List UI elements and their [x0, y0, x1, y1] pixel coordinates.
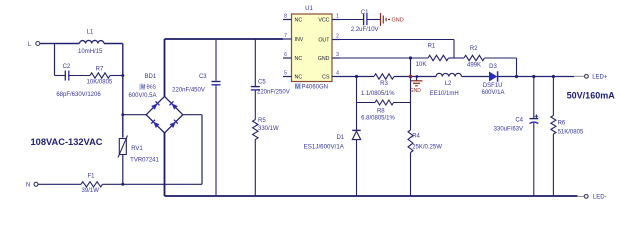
wire L terminal to filter node — [40, 43, 55, 45]
inductor L1 — [80, 40, 105, 43]
svg-text:C4: C4 — [515, 118, 523, 124]
svg-text:4: 4 — [336, 71, 339, 77]
svg-text:6: 6 — [284, 52, 287, 58]
svg-text:7: 7 — [284, 33, 287, 39]
svg-text:1: 1 — [336, 14, 339, 20]
svg-text:F1: F1 — [87, 174, 95, 180]
svg-text:39/1W: 39/1W — [82, 188, 100, 194]
svg-text:NC: NC — [295, 56, 303, 62]
wire N to F1 — [38, 183, 81, 185]
svg-text:R8: R8 — [377, 109, 385, 115]
wire C5 to R5 — [254, 91, 256, 120]
varistor RV1 — [119, 139, 126, 155]
wire C1 to gnd — [367, 19, 380, 21]
capacitor C3 lead bottom — [215, 86, 217, 197]
bridge BD1 diamond — [146, 96, 183, 133]
pin 4 stub — [332, 76, 340, 78]
capacitor C5 plate1 — [251, 86, 260, 88]
svg-text:10K/0805: 10K/0805 — [87, 79, 113, 85]
junction C4 — [532, 75, 535, 78]
resistor R5 — [253, 120, 258, 140]
svg-text:10mH/15: 10mH/15 — [78, 49, 103, 55]
svg-text:M B6S: M B6S — [141, 85, 157, 91]
svg-text:LED+: LED+ — [592, 75, 608, 81]
diode D1 — [352, 129, 360, 131]
terminal L — [36, 42, 40, 46]
capacitor C5 plate2 — [251, 89, 260, 91]
svg-text:5: 5 — [284, 71, 287, 77]
wire pin2 jumper — [340, 39, 454, 41]
op-amp U1 MP4060GN body — [292, 14, 333, 82]
junction R2 drop — [515, 75, 518, 78]
svg-text:ES1J/600V/1A: ES1J/600V/1A — [304, 144, 345, 151]
wire C4 bottom — [533, 123, 535, 196]
value BD1 — [139, 84, 145, 90]
vertical wire up to bridge right — [201, 115, 203, 185]
svg-text:8: 8 — [284, 14, 287, 20]
svg-text:CS: CS — [322, 75, 330, 81]
svg-text:C2: C2 — [63, 64, 71, 70]
svg-text:D3: D3 — [489, 64, 497, 70]
svg-text:R1: R1 — [428, 44, 436, 50]
svg-text:68pF/630V/1206: 68pF/630V/1206 — [56, 92, 101, 98]
pin 6 stub — [283, 57, 292, 59]
diode D3 — [489, 72, 497, 82]
svg-text:GND: GND — [410, 88, 422, 94]
wire pin4 CS row — [340, 76, 374, 78]
junction gnd stub — [416, 75, 419, 78]
capacitor C2 plate1 — [64, 71, 66, 81]
svg-text:INV: INV — [295, 37, 304, 43]
svg-text:D1: D1 — [336, 135, 344, 141]
svg-text:VCC: VCC — [318, 18, 329, 24]
DC+ rail — [165, 38, 284, 40]
wire pin1 to C1 — [340, 19, 363, 21]
pin 7 stub — [283, 38, 292, 40]
wire bridge top to DC+ rail — [164, 39, 166, 96]
svg-text:GND: GND — [318, 56, 330, 62]
wire R5 to rail — [254, 140, 256, 197]
wire R8 left — [357, 102, 376, 104]
wire bridge bottom to DC- rail — [164, 133, 166, 196]
vertical wire filter node down — [122, 44, 124, 138]
wire R2 drop to LED+ row — [516, 58, 518, 77]
capacitor C3 plate2 — [212, 84, 221, 86]
wire R1 to R2 — [449, 57, 465, 59]
wire gnd node drop — [410, 58, 412, 77]
wire bridge left corner — [123, 114, 146, 116]
pin 5 stub — [283, 76, 292, 78]
resistor R3 — [374, 74, 394, 79]
svg-text:600V/0.5A: 600V/0.5A — [128, 93, 156, 99]
svg-text:EE10/1mH: EE10/1mH — [430, 91, 459, 97]
wire to bridge right corner — [183, 114, 202, 116]
bridge diode bottom-left — [151, 120, 159, 128]
capacitor C2 plate2 — [68, 71, 70, 81]
pin 8 stub — [283, 19, 292, 21]
svg-text:51K/0805: 51K/0805 — [558, 129, 584, 135]
svg-text:RV1: RV1 — [131, 146, 143, 152]
junction CS/D1 — [355, 75, 358, 78]
wire N line to bridge AC2 — [103, 183, 203, 185]
svg-text:BD1: BD1 — [144, 74, 156, 80]
capacitor C4 plate- — [530, 122, 539, 123]
wire D3 to LED+ — [498, 76, 574, 78]
capacitor C1 plate1 — [363, 14, 365, 25]
junction filter node — [121, 74, 124, 77]
svg-text:220nF/250V: 220nF/250V — [257, 90, 290, 96]
svg-text:1.1/0805/1%: 1.1/0805/1% — [361, 91, 395, 97]
svg-text:3: 3 — [336, 52, 339, 58]
svg-text:2: 2 — [336, 34, 339, 40]
gray stub LED+ — [574, 75, 584, 77]
svg-text:R2: R2 — [470, 46, 478, 52]
svg-text:R7: R7 — [96, 66, 104, 72]
terminal N — [34, 182, 38, 186]
svg-text:LED-: LED- — [593, 195, 607, 201]
bridge diode top-left — [151, 101, 159, 109]
svg-text:2.2uF/10V: 2.2uF/10V — [351, 27, 379, 33]
terminal LED+ — [585, 74, 589, 78]
wire C4 top — [533, 77, 535, 119]
capacitor C4 plate+ — [530, 118, 539, 120]
resistor R2 — [464, 55, 485, 60]
wire D1 to rail — [356, 140, 358, 196]
part highlight — [295, 83, 301, 89]
svg-text:N: N — [26, 183, 30, 189]
junction CS/gnd red — [409, 75, 413, 79]
wire R7 to node — [110, 75, 123, 77]
svg-text:C5: C5 — [258, 80, 266, 86]
svg-text:TVR07241: TVR07241 — [130, 157, 159, 163]
svg-text:NC: NC — [295, 75, 303, 81]
svg-text:U1: U1 — [305, 6, 313, 12]
svg-text:330/1W: 330/1W — [258, 126, 279, 132]
svg-text:499K: 499K — [467, 63, 481, 69]
wire L2 to D3 — [462, 76, 490, 78]
ground VCC — [381, 13, 391, 26]
resistor R1 — [428, 55, 449, 60]
ground mid — [411, 77, 423, 86]
wire R2 right — [485, 57, 517, 59]
resistor R4 — [408, 130, 413, 153]
wire R4 to rail — [410, 153, 412, 197]
junction gnd row — [409, 56, 412, 59]
pin 3 stub — [332, 57, 340, 59]
bridge diode top-right — [169, 101, 177, 109]
svg-text:600V/1A: 600V/1A — [481, 90, 504, 96]
pin 1 stub — [332, 19, 340, 21]
inductor L2 — [436, 73, 462, 76]
svg-text:DSF1U: DSF1U — [483, 83, 503, 89]
svg-text:M P4060GN: M P4060GN — [295, 84, 328, 90]
DC- bottom rail — [165, 195, 578, 197]
wire CS to D1/R8 — [356, 77, 358, 131]
wire R6 top — [552, 77, 554, 116]
resistor R7 — [90, 73, 110, 78]
junction bridge-left tap — [121, 113, 124, 116]
svg-text:108VAC-132VAC: 108VAC-132VAC — [31, 137, 103, 147]
svg-text:GND: GND — [392, 18, 404, 24]
wire L1 to node — [104, 43, 123, 45]
junction RV1/N — [121, 183, 124, 186]
svg-text:R5: R5 — [258, 118, 266, 124]
svg-text:R4: R4 — [412, 134, 420, 140]
svg-text:L1: L1 — [87, 29, 94, 35]
gray stub LED- — [577, 195, 584, 197]
capacitor C5 lead top — [254, 39, 256, 86]
fuse F1 — [81, 182, 103, 187]
svg-text:L2: L2 — [445, 81, 452, 87]
wire RV1 to N line — [122, 155, 124, 185]
pin 2 stub — [332, 39, 340, 41]
capacitor C1 plate2 — [366, 14, 368, 25]
wire R6 bottom — [552, 134, 554, 196]
wire C2 to R7 — [69, 75, 90, 77]
wire gnd node to R4 — [410, 77, 412, 131]
svg-text:C1: C1 — [361, 10, 369, 16]
varistor RV1 diagonal — [118, 136, 128, 158]
svg-text:6.8/0805/1%: 6.8/0805/1% — [361, 115, 395, 121]
svg-text:OUT: OUT — [318, 38, 330, 44]
resistor R8 — [375, 100, 394, 105]
junction R6 — [552, 75, 555, 78]
resistor R6 — [551, 116, 556, 135]
svg-text:NC: NC — [295, 18, 303, 24]
wire to C2 — [55, 75, 65, 77]
capacitor C3 plate1 — [212, 81, 221, 83]
wire to L1 — [55, 43, 80, 45]
wire pin3 row — [340, 57, 428, 59]
svg-text:C3: C3 — [199, 74, 207, 80]
svg-text:R3: R3 — [380, 81, 388, 87]
wire R8 right — [394, 102, 411, 104]
wire down to C2 branch — [54, 44, 56, 76]
wire pin2 drop — [453, 40, 455, 59]
svg-text:220nF/450V: 220nF/450V — [172, 88, 205, 94]
C4 plus mark — [535, 114, 539, 118]
svg-text:50V/160mA: 50V/160mA — [567, 90, 616, 100]
capacitor C3 lead top — [215, 39, 217, 81]
svg-text:R6: R6 — [558, 121, 566, 127]
bridge diode bottom-right — [169, 120, 177, 128]
svg-text:10K: 10K — [416, 62, 427, 68]
svg-text:330uF/63V: 330uF/63V — [494, 127, 523, 133]
wire R3 to L2 — [394, 76, 436, 78]
terminal LED- — [584, 195, 588, 199]
svg-text:25K/0.25W: 25K/0.25W — [412, 145, 442, 151]
